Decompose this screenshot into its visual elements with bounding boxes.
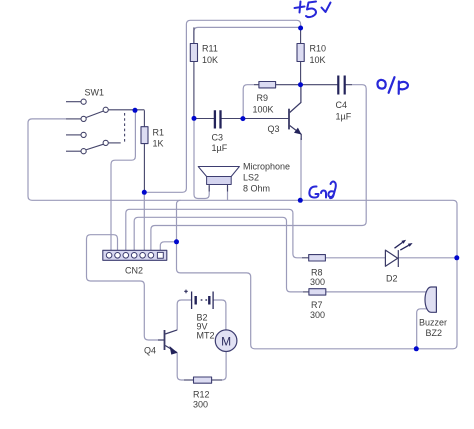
svg-text:M: M	[221, 335, 231, 349]
microphone LS2 speaker symbol	[198, 162, 290, 194]
svg-text:1µF: 1µF	[212, 143, 228, 153]
connector CN2	[103, 250, 167, 275]
svg-text:300: 300	[193, 400, 208, 410]
junction dot R1 bottom node	[142, 190, 147, 195]
svg-text:Buzzer: Buzzer	[419, 318, 447, 328]
svg-text:R9: R9	[257, 93, 269, 103]
junction dot gnd node	[298, 198, 303, 203]
wire R8 right to LED anode and LED cathode to rail	[325, 257, 456, 259]
resistor R11	[190, 27, 218, 118]
svg-text:D2: D2	[386, 274, 398, 284]
junction dot buzzer return node	[414, 346, 419, 351]
handwritten Gnd annotation	[309, 182, 335, 199]
junction dot CN2 right node	[174, 239, 179, 244]
LED D2	[385, 242, 408, 267]
svg-text:300: 300	[310, 277, 325, 287]
wire microphone left leg U to C3 node	[194, 118, 209, 198]
junction dot C3 left node	[192, 116, 197, 121]
junction dot LED rail node	[454, 255, 459, 260]
wire buzzer bottom to ground return	[417, 309, 427, 349]
wire R1 node down to CN2 pin5	[143, 192, 145, 250]
svg-text:C4: C4	[336, 100, 348, 110]
transistor Q3	[289, 85, 302, 140]
junction dot Q3 collector node	[298, 82, 303, 87]
resistor R10	[297, 28, 326, 85]
wire battery right to motor top	[213, 300, 226, 330]
wire R12 left to Q4 emitter	[177, 353, 193, 380]
handwritten O/p annotation	[377, 77, 408, 94]
resistor R9	[253, 82, 301, 115]
resistor R12	[184, 377, 222, 410]
svg-text:R1: R1	[153, 128, 165, 138]
svg-text:Q3: Q3	[268, 124, 280, 134]
wire R11 top to R10 top	[194, 27, 301, 43]
wire microphone right leg to gnd rail	[227, 186, 229, 200]
wire R9 left lead down to C3 right node	[243, 85, 254, 119]
wire CN2 pin7 square to gnd node	[160, 242, 176, 252]
svg-text:BZ2: BZ2	[426, 328, 443, 338]
svg-text:10K: 10K	[310, 55, 326, 65]
junction dot C3 right node	[240, 116, 245, 121]
svg-text:CN2: CN2	[125, 266, 143, 276]
svg-text:100K: 100K	[253, 105, 274, 115]
svg-text:R12: R12	[193, 389, 210, 399]
wire switch row2 along ground rail to right side and bottom return	[28, 119, 457, 349]
battery B2	[184, 290, 214, 341]
svg-text:MT2: MT2	[197, 331, 215, 341]
svg-text:1µF: 1µF	[336, 112, 352, 122]
wire +5V outer rail from R1 node up over to +5V dot	[144, 20, 300, 192]
wire CN2 pin2 loop around to Q4 base	[87, 235, 159, 340]
capacitor C3	[194, 110, 289, 153]
svg-text:Q4: Q4	[144, 346, 156, 356]
svg-text:300: 300	[310, 310, 325, 320]
resistor R8	[302, 255, 325, 288]
capacitor C4	[301, 76, 353, 122]
svg-text:Microphone: Microphone	[243, 162, 290, 172]
transistor Q4	[158, 330, 177, 353]
svg-text:R8: R8	[311, 267, 323, 277]
wire R7 right to buzzer	[326, 291, 427, 293]
wire battery left to Q4 collector	[177, 300, 191, 330]
resistor R7	[303, 289, 326, 320]
junction dot +5V node	[298, 26, 303, 31]
junction dot SW1 node	[133, 108, 138, 113]
motor M	[215, 330, 237, 352]
switch SW1	[66, 99, 144, 154]
wire CN2 pin4 to R7	[134, 217, 303, 292]
svg-text:R10: R10	[310, 44, 327, 54]
svg-text:R7: R7	[311, 300, 323, 310]
wire CN2 gnd node riser to ground rail	[177, 200, 181, 242]
wire C4 output over to CN2 pin6	[151, 85, 366, 251]
buzzer BZ2	[419, 287, 447, 338]
wire motor bottom to R12 right	[212, 352, 227, 381]
svg-text:R11: R11	[202, 44, 218, 54]
svg-text:8 Ohm: 8 Ohm	[243, 184, 270, 194]
resistor R1	[141, 110, 164, 192]
svg-text:LS2: LS2	[243, 173, 259, 183]
wire SW1 node down to CN2 pin1	[111, 110, 135, 250]
svg-text:10K: 10K	[202, 55, 218, 65]
svg-text:C3: C3	[212, 133, 224, 143]
wire Q3 emitter down to gnd dot	[300, 138, 302, 200]
svg-text:1K: 1K	[153, 139, 164, 149]
wire CN2 pin3 to R8	[126, 209, 302, 257]
handwritten +5v annotation	[295, 2, 331, 18]
svg-text:SW1: SW1	[85, 88, 105, 98]
